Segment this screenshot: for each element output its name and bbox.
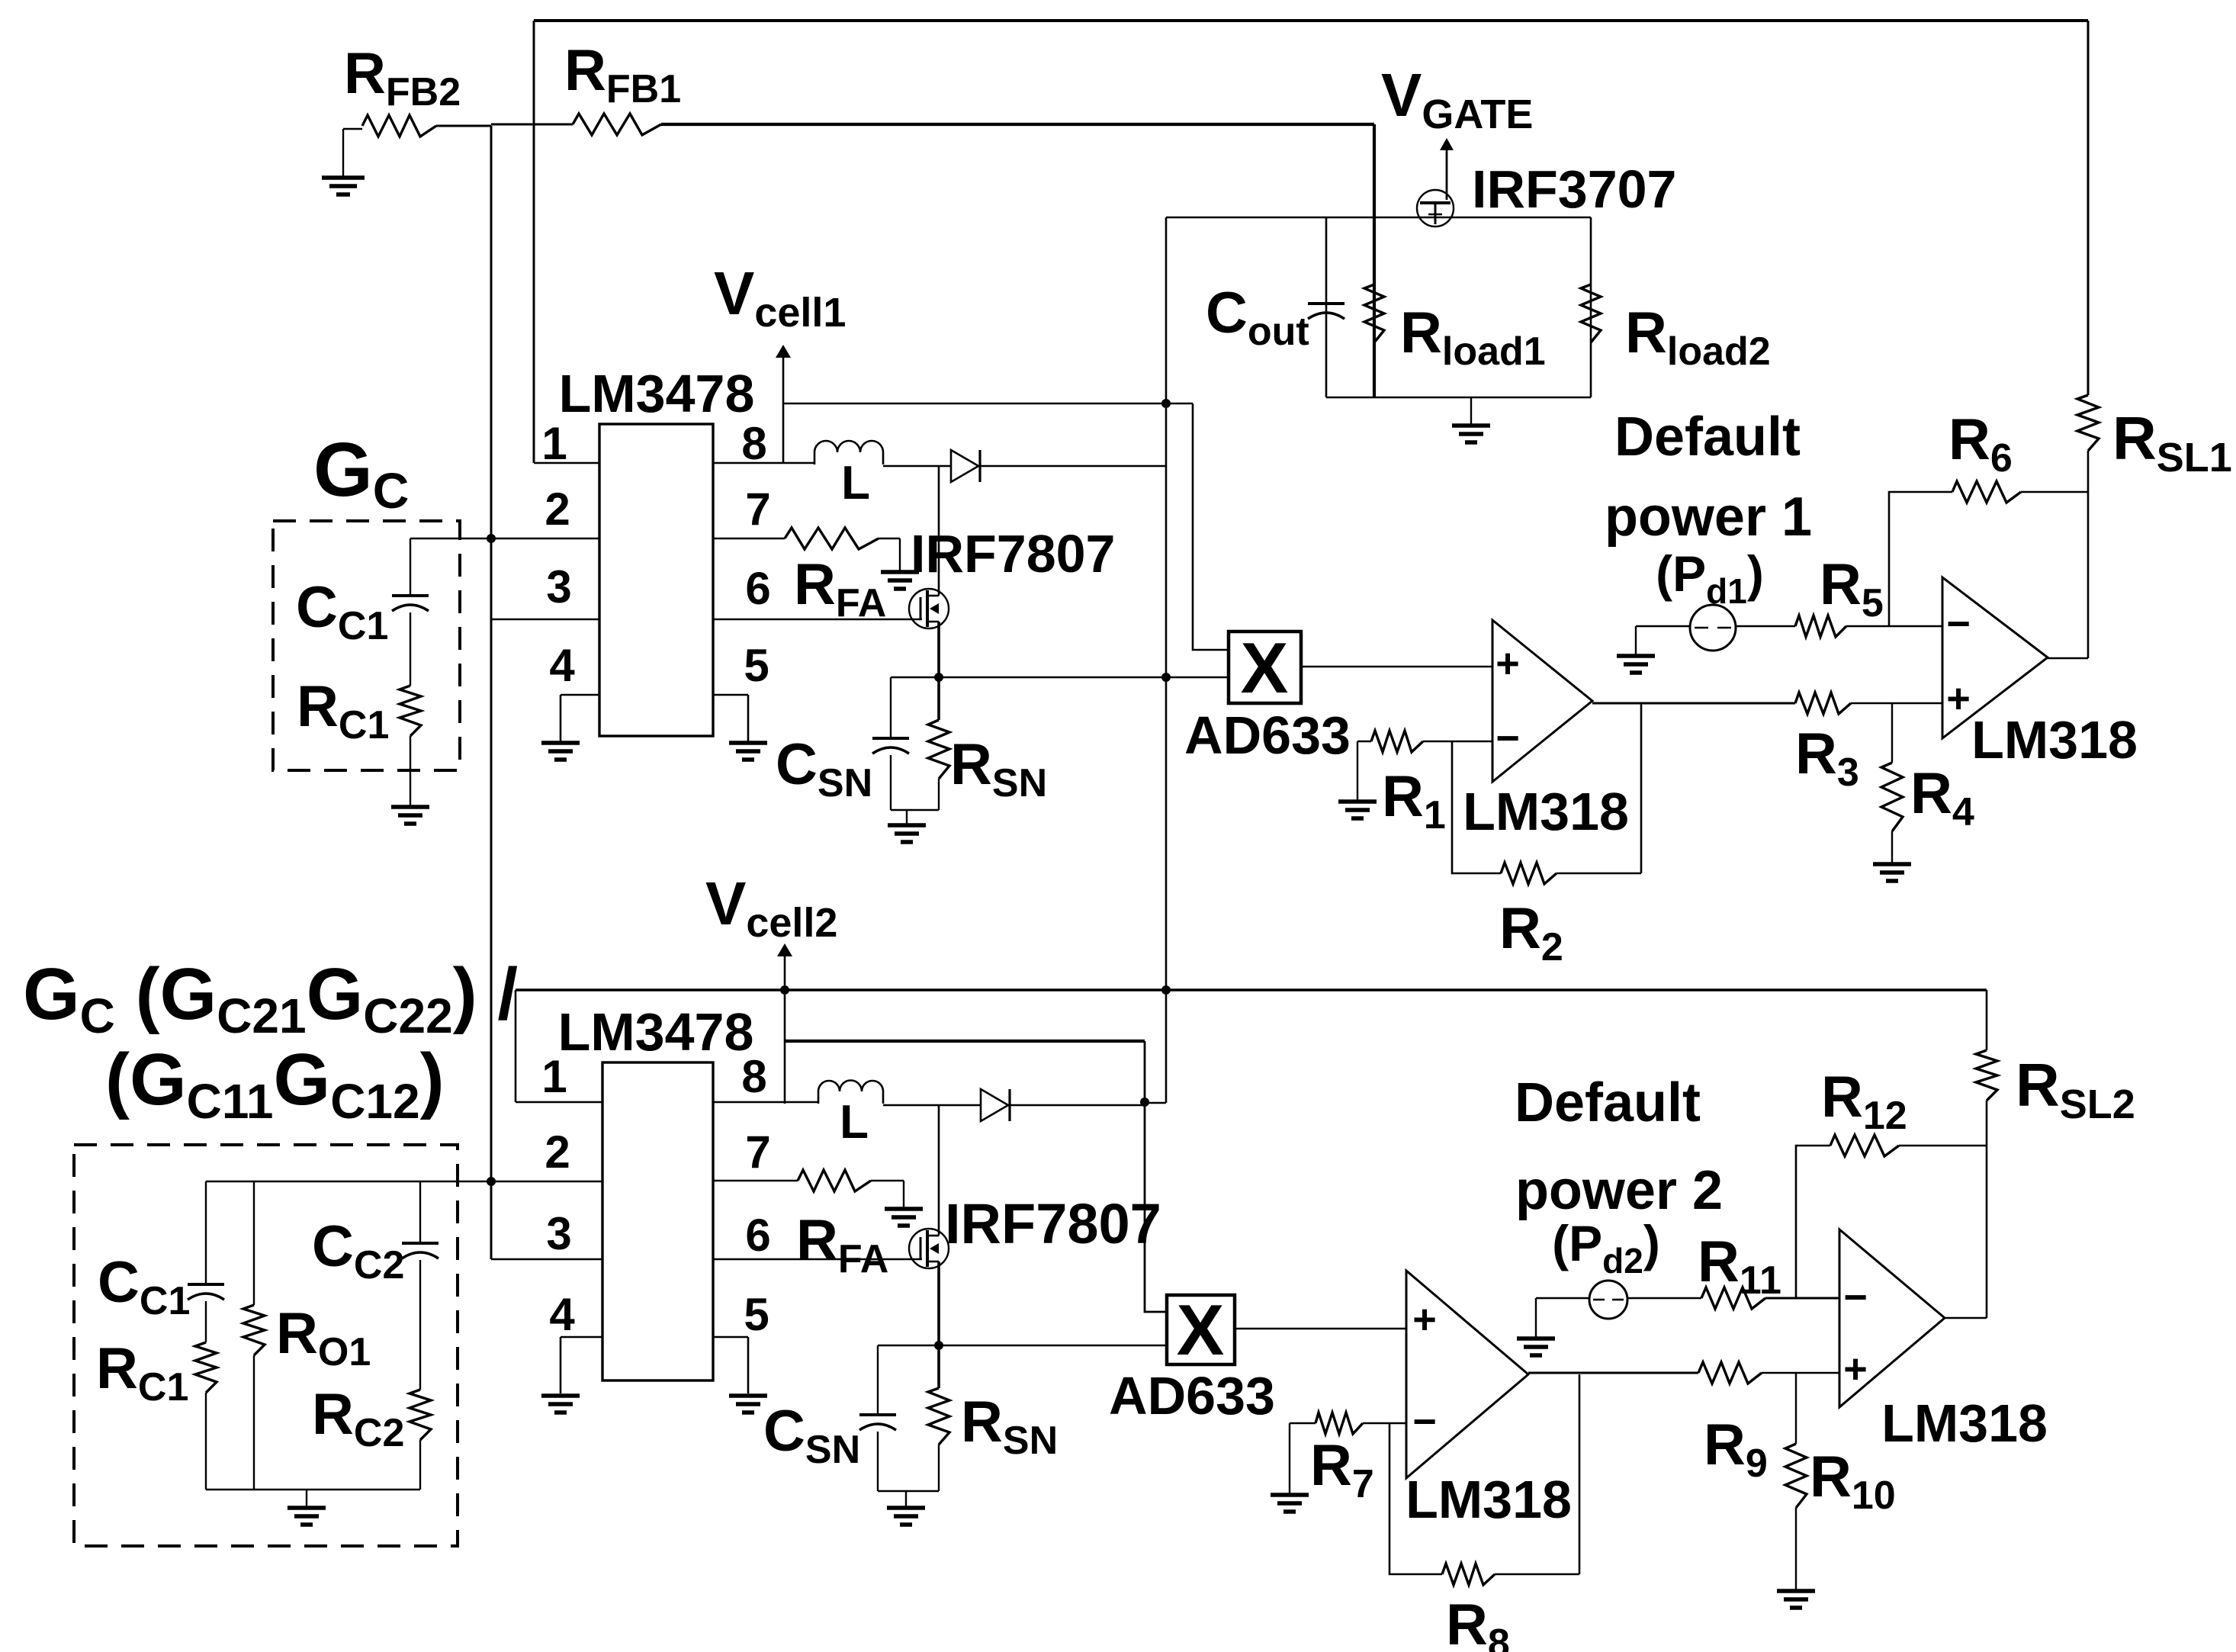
svg-text:1: 1 xyxy=(541,418,567,469)
wire Gc2 bottom xyxy=(206,1489,420,1490)
svg-text:Default: Default xyxy=(1614,407,1801,468)
resistor R11 xyxy=(1701,1287,1765,1309)
resistor RC1 xyxy=(400,686,421,736)
ground RFA1 xyxy=(899,538,901,570)
node junction diode2 node xyxy=(1140,1098,1149,1107)
svg-text:−: − xyxy=(1946,601,1971,647)
svg-text:LM3478: LM3478 xyxy=(558,1002,754,1062)
svg-text:−: − xyxy=(1495,715,1520,761)
node junction pin2-2 xyxy=(487,1177,496,1186)
resistor R1 xyxy=(1423,741,1492,743)
ground pin5 U1 xyxy=(729,741,767,745)
resistor RC2 xyxy=(410,1390,431,1440)
wire compensation vertical x644 xyxy=(490,126,493,1259)
svg-text:LM3478: LM3478 xyxy=(559,364,755,423)
wire Pd2 to R11 xyxy=(1627,1297,1701,1300)
svg-text:+: + xyxy=(1946,676,1971,722)
wire R2 feedback loop xyxy=(1452,741,1501,873)
svg-text:L: L xyxy=(841,457,870,509)
svg-text:IRF7807: IRF7807 xyxy=(911,524,1115,583)
node junction mosfet2 source xyxy=(934,1341,943,1350)
svg-text:8: 8 xyxy=(741,418,766,469)
wire pin6 U1 gate xyxy=(713,619,922,621)
wire Vcell1 stem xyxy=(782,351,785,463)
ground pin4 U4 xyxy=(541,1393,580,1398)
resistor R12 xyxy=(1830,1135,1899,1156)
resistor R7 xyxy=(1363,1422,1406,1425)
wire left vertical pin1 net xyxy=(533,21,535,463)
ground Rload box xyxy=(1470,397,1472,424)
wire R8 feedback loop xyxy=(1389,1423,1442,1574)
wire AD633-2 output xyxy=(1235,1328,1406,1330)
wire pin5 U4 xyxy=(713,1336,748,1339)
wire Vcell2 stem xyxy=(784,950,786,1104)
ground CSN RSN 1 xyxy=(906,810,908,824)
wire output node corner to AD633 inputs xyxy=(1165,217,1168,1103)
resistor RC1b xyxy=(195,1342,217,1393)
wire pin1 U4 xyxy=(516,1101,602,1104)
wire AD633-1 lower input y888 xyxy=(891,677,1229,679)
svg-text:3: 3 xyxy=(546,561,571,612)
wire pin3 U1 xyxy=(491,619,599,621)
svg-text:7: 7 xyxy=(745,484,770,535)
capacitor CSN2 xyxy=(877,1345,879,1413)
ground R1 xyxy=(1357,741,1358,800)
wire diode to node x1529 xyxy=(980,465,1166,468)
wire pin5 U1 xyxy=(713,694,748,696)
svg-text:5: 5 xyxy=(744,640,769,691)
wire pin4 U4 xyxy=(561,1336,602,1339)
svg-text:+: + xyxy=(1495,641,1520,686)
capacitor CC1b xyxy=(205,1181,207,1283)
wire top feedback net from LM3478-1 pin1 to RSL1 xyxy=(534,19,2088,22)
wire pin8 row U1 to inductor xyxy=(713,462,814,464)
resistor RSL2 xyxy=(1986,990,1988,1050)
wire R6 feedback xyxy=(1889,492,1952,626)
resistor R3 xyxy=(1795,693,1851,714)
wire CSN RSN bottom xyxy=(891,809,939,811)
capacitor CC1 xyxy=(410,538,411,594)
wire Vcell1 tap line y529 xyxy=(783,403,1193,405)
wire U2 output line xyxy=(1592,702,1795,705)
wire Vcell2 bus long line xyxy=(516,988,1987,992)
resistor RFB2 xyxy=(343,128,362,130)
ground CSN2 RSN2 xyxy=(905,1491,907,1506)
svg-text:2: 2 xyxy=(545,484,570,535)
wire pin6 U4 gate xyxy=(713,1258,922,1261)
wire pin3 U4 xyxy=(491,1258,602,1261)
op-amp U3 LM318 xyxy=(1942,577,2048,738)
resistor R6 xyxy=(1952,481,2021,503)
ground R7 xyxy=(1289,1423,1290,1493)
wire AD633-1 output xyxy=(1301,666,1492,668)
multiplier AD633 X1 box xyxy=(1229,632,1301,703)
wire pin1 U1 xyxy=(534,462,599,464)
resistor RFA2 xyxy=(798,1170,871,1191)
svg-text:6: 6 xyxy=(745,1210,770,1261)
multiplier AD633 X2 box xyxy=(1167,1295,1235,1364)
svg-text:LM318: LM318 xyxy=(1463,782,1629,841)
op-amp U2 LM318 xyxy=(1492,620,1592,782)
source Pd2 xyxy=(1536,1297,1590,1300)
svg-text:7: 7 xyxy=(745,1127,770,1178)
svg-text:power 2: power 2 xyxy=(1515,1160,1723,1221)
svg-text:X: X xyxy=(1177,1290,1225,1370)
box Gc compensation dashed xyxy=(273,521,460,770)
wire LM3478-2 outer left xyxy=(515,990,517,1102)
diode D1 xyxy=(951,450,978,482)
ground RFA2 xyxy=(903,1181,904,1207)
ground Gc2 xyxy=(306,1490,307,1506)
op-amp U5 LM318 xyxy=(1406,1271,1528,1478)
svg-text:1: 1 xyxy=(541,1051,567,1102)
svg-text:LM318: LM318 xyxy=(1881,1393,2048,1453)
wire VGATE net vertical xyxy=(1373,124,1376,397)
resistor R10 xyxy=(1795,1373,1797,1444)
wire CSN2 RSN2 bottom xyxy=(878,1490,939,1492)
resistor RSN2 xyxy=(928,1388,949,1445)
wire R12 feedback xyxy=(1796,1146,1830,1298)
wire vertical x1564 to AD633-1 upper input xyxy=(1193,403,1229,650)
node junction pin2-1 xyxy=(487,534,496,543)
resistor RSN1 xyxy=(928,720,949,779)
box Gc2 dashed xyxy=(74,1145,458,1546)
svg-text:power 1: power 1 xyxy=(1605,487,1812,548)
svg-text:−: − xyxy=(1843,1274,1868,1320)
resistor R4 xyxy=(1891,703,1893,763)
resistor Rload2 xyxy=(1581,284,1601,342)
node junction mosfet source xyxy=(934,673,943,682)
source Pd1 xyxy=(1636,625,1690,628)
node junction x1529 y529 xyxy=(1161,399,1171,408)
node junction x1529 y888 xyxy=(1161,673,1171,682)
wire pin2 U4 from box xyxy=(206,1181,602,1183)
wire pin2 U1 from CC1 xyxy=(410,538,599,540)
resistor RO1 xyxy=(253,1181,255,1305)
wire inductor2 to diode xyxy=(883,1104,981,1107)
wire U6 output xyxy=(1945,1317,1987,1319)
wire corner to Rload box xyxy=(1166,217,1326,219)
ground Pd2 xyxy=(1535,1298,1537,1337)
transistor IRF3707 Q3 xyxy=(1440,138,1454,150)
svg-text:6: 6 xyxy=(745,563,770,614)
ground pin5 U4 xyxy=(729,1393,767,1398)
op-amp U6 LM318 xyxy=(1839,1229,1945,1407)
wire pin4 U1 xyxy=(561,694,599,696)
svg-text:8: 8 xyxy=(741,1051,766,1102)
svg-text:IRF3707: IRF3707 xyxy=(1472,159,1676,219)
svg-text:3: 3 xyxy=(546,1208,571,1259)
node junction Vcell2 bus xyxy=(780,985,789,995)
transistor IRF7807 Q2 xyxy=(909,1229,949,1268)
ground R4 xyxy=(1873,862,1911,866)
wire pin7 U4 xyxy=(713,1180,798,1182)
wire vertical to AD633-2 upper input xyxy=(1145,1041,1167,1312)
svg-text:X: X xyxy=(1241,628,1289,708)
svg-text:AD633: AD633 xyxy=(1109,1366,1275,1425)
svg-text:Default: Default xyxy=(1515,1072,1701,1133)
svg-text:AD633: AD633 xyxy=(1184,705,1351,765)
ic LM3478 U4 body xyxy=(602,1062,713,1380)
wire diode2 to node xyxy=(1010,1104,1145,1107)
wire U3 output xyxy=(2048,657,2088,660)
svg-text:4: 4 xyxy=(549,1289,575,1340)
svg-text:+: + xyxy=(1412,1297,1437,1342)
wire x1529 jog xyxy=(1145,1102,1166,1104)
svg-text:+: + xyxy=(1843,1346,1868,1392)
wire pin8 row U4 xyxy=(713,1101,818,1104)
ground for RFB2 xyxy=(342,129,344,176)
resistor R9 xyxy=(1698,1362,1762,1384)
resistor Rload1 xyxy=(1364,284,1384,342)
wire U5 output line xyxy=(1528,1372,1698,1374)
capacitor CSN1 xyxy=(890,677,892,737)
resistor R5 xyxy=(1795,615,1846,637)
ground Gc box 1 xyxy=(391,805,429,809)
svg-text:4: 4 xyxy=(549,640,575,691)
wire AD633-2 lower input xyxy=(878,1345,1167,1347)
resistor R2 xyxy=(1501,863,1557,884)
svg-text:−: − xyxy=(1412,1399,1437,1445)
resistor RSL1 xyxy=(2087,21,2090,395)
ground Pd1 xyxy=(1635,626,1637,654)
wire Pd1 to R5 xyxy=(1736,625,1795,628)
inductor L1 xyxy=(814,441,883,464)
resistor RFA1 xyxy=(785,528,879,549)
ground pin4 U1 xyxy=(541,741,580,745)
capacitor Cout xyxy=(1308,302,1344,305)
capacitor CC2 xyxy=(419,1181,421,1242)
node junction bus x1529 xyxy=(1161,985,1171,995)
inductor L2 xyxy=(818,1081,883,1104)
svg-text:LM318: LM318 xyxy=(1406,1470,1572,1529)
ground R10 xyxy=(1777,1589,1815,1593)
svg-text:L: L xyxy=(840,1096,869,1149)
wire pin7 U1 xyxy=(713,538,785,540)
ic LM3478 U1 body xyxy=(599,424,713,736)
svg-text:2: 2 xyxy=(545,1127,570,1178)
svg-text:LM318: LM318 xyxy=(1971,710,2138,770)
wire inductor to diode xyxy=(883,465,951,468)
resistor R8 xyxy=(1442,1564,1495,1585)
transistor IRF7807 Q1 xyxy=(909,589,949,628)
wire Vcell2 tap thick xyxy=(785,1040,1145,1043)
wire Rload box xyxy=(1326,217,1591,397)
diode D2 xyxy=(981,1089,1008,1121)
resistor RFB1 xyxy=(491,124,573,126)
svg-text:5: 5 xyxy=(744,1289,769,1340)
svg-text:IRF7807: IRF7807 xyxy=(945,1192,1161,1255)
